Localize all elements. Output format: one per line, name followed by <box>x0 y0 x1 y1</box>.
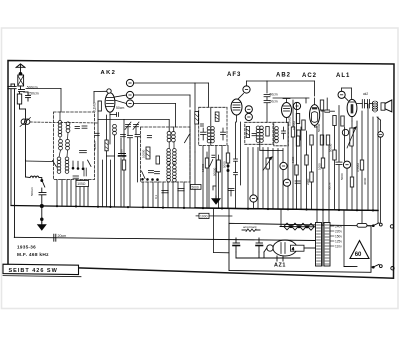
svg-text:500cm: 500cm <box>30 186 34 196</box>
svg-text:AZ1: AZ1 <box>274 263 286 269</box>
svg-text:110v: 110v <box>335 245 342 249</box>
svg-text:60: 60 <box>355 252 362 258</box>
svg-text:1MΩ: 1MΩ <box>291 156 295 163</box>
svg-text:SEIBT 426 SW: SEIBT 426 SW <box>9 268 58 274</box>
svg-text:20cm: 20cm <box>58 234 67 238</box>
svg-text:300Ω: 300Ω <box>363 177 367 185</box>
svg-text:0,5MΩ: 0,5MΩ <box>292 120 296 130</box>
svg-text:2MΩ: 2MΩ <box>306 178 310 185</box>
svg-text:1000: 1000 <box>200 214 208 218</box>
svg-text:1000: 1000 <box>318 163 322 170</box>
svg-text:5000: 5000 <box>223 161 227 168</box>
svg-text:100cm: 100cm <box>120 148 124 158</box>
svg-text:AC2: AC2 <box>302 73 317 79</box>
svg-text:1935-36: 1935-36 <box>17 245 36 250</box>
svg-text:50cm: 50cm <box>116 106 124 110</box>
svg-text:0,1: 0,1 <box>154 194 158 199</box>
svg-text:50cm: 50cm <box>270 93 278 97</box>
svg-text:105Ω: 105Ω <box>77 182 86 186</box>
svg-text:0,1MΩ: 0,1MΩ <box>93 102 97 112</box>
svg-text:125v: 125v <box>335 240 342 244</box>
svg-text:0,5MΩ: 0,5MΩ <box>356 162 360 172</box>
svg-text:AF3: AF3 <box>227 72 241 78</box>
svg-text:M.F. 468 kHz: M.F. 468 kHz <box>17 252 49 258</box>
svg-text:4: 4 <box>292 247 294 251</box>
svg-text:5000: 5000 <box>192 185 199 189</box>
svg-text:ak2: ak2 <box>363 92 368 96</box>
svg-text:0,5MΩ: 0,5MΩ <box>288 116 292 126</box>
svg-text:5000: 5000 <box>340 173 344 180</box>
svg-text:50000: 50000 <box>317 123 321 132</box>
svg-text:250cm: 250cm <box>28 92 39 96</box>
svg-text:AL1: AL1 <box>336 73 350 79</box>
svg-text:10000: 10000 <box>142 149 146 158</box>
svg-text:150v: 150v <box>335 235 342 239</box>
svg-text:500cm: 500cm <box>93 140 97 150</box>
svg-text:50cm: 50cm <box>270 100 278 104</box>
svg-text:AB2: AB2 <box>276 73 291 79</box>
svg-text:240v: 240v <box>335 225 342 229</box>
svg-text:10000: 10000 <box>201 163 205 172</box>
svg-text:ampl.back: ampl.back <box>243 225 257 229</box>
svg-text:50cm: 50cm <box>328 182 332 190</box>
svg-text:220v: 220v <box>335 230 342 234</box>
svg-text:50000: 50000 <box>213 167 217 176</box>
svg-text:AK2: AK2 <box>101 70 117 76</box>
